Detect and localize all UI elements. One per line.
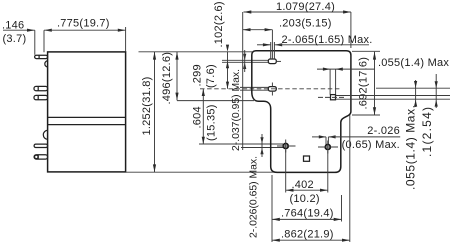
svg-text:(0.65) Max.: (0.65) Max. [342,139,400,151]
dimension 2-.026(0.65) Max. right [312,125,400,151]
PCB pattern outline [252,51,351,173]
dimension .299(7.6) [192,45,230,89]
svg-text:.1(2.54): .1(2.54) [420,107,434,157]
svg-text:.203(5.15): .203(5.15) [279,18,332,30]
case peg upper [45,61,48,67]
square hole S2 [304,156,310,161]
top reference line [139,51,253,53]
dimension .775(19.7) [44,17,126,51]
dimension .055(1.4) Max. right [404,74,438,190]
baseline [126,171,277,173]
svg-text:(15.35): (15.35) [206,104,218,141]
pin 2 [34,86,48,90]
hole H2 row line [200,88,340,90]
relay body side view [48,52,126,172]
svg-text:.496(12.6): .496(12.6) [161,52,173,105]
svg-text:(7.6): (7.6) [205,64,217,88]
svg-text:2-.037(0.95) Max.: 2-.037(0.95) Max. [231,69,242,151]
square hole S1 [318,95,345,100]
right row lines [376,87,450,89]
svg-text:.862(21.9): .862(21.9) [281,228,334,240]
label 2-.026(0.65) Max. lower [199,134,283,238]
label 2-.037(0.95) Max. upper [231,50,246,151]
dimension .604(15.35) [192,89,218,144]
svg-text:.055(1.4) Max.: .055(1.4) Max. [378,57,450,69]
pin 3 [34,95,48,99]
dimension .692(17.6) [352,51,380,115]
dimension .146(3.7) [2,20,52,55]
pin 1 top [35,55,48,58]
svg-text:.775(19.7): .775(19.7) [57,17,110,29]
dimension .1(2.54) [414,80,434,157]
hole H4 bottom-right [318,141,338,154]
svg-text:.604: .604 [192,106,204,128]
svg-text:2-.026(0.65) Max.: 2-.026(0.65) Max. [249,156,260,238]
dimension .203(5.15) [243,18,332,32]
svg-text:1.252(31.8): 1.252(31.8) [141,76,153,135]
relay edge projection line [242,12,244,150]
dimension .055(1.4) Max. top [317,57,450,95]
dimension .862(21.9) [272,115,350,242]
svg-text:.102(2.6): .102(2.6) [213,1,225,47]
dimension .496(12.6) [161,52,254,105]
svg-text:2-.065(1.65) Max.: 2-.065(1.65) Max. [282,34,373,46]
hole H1 slot lines [222,59,268,61]
dimension .764(19.4) [272,175,342,242]
svg-text:.764(19.4): .764(19.4) [281,207,334,219]
hole H2 [268,83,276,96]
svg-text:.055(1.4) Max.: .055(1.4) Max. [404,105,418,190]
hole H3 bottom-left [277,140,296,153]
dimension 1.079(27.4) [244,1,351,48]
dimension 1.252(31.8) [141,52,156,172]
svg-text:2-.026: 2-.026 [367,125,400,137]
svg-text:.692(17.6): .692(17.6) [358,57,370,110]
dimension .402(10.2) [286,150,328,205]
svg-text:(10.2): (10.2) [290,193,320,205]
hole H1 [268,30,281,64]
svg-text:.146: .146 [2,20,24,32]
svg-text:.299: .299 [192,64,204,86]
dimension 2-.065(1.65) Max. [257,34,373,46]
pin 5 [34,155,48,159]
pin 4 [34,144,48,147]
svg-text:.402: .402 [292,179,314,191]
case peg lower [43,130,48,139]
svg-text:(3.7): (3.7) [3,33,27,45]
svg-text:1.079(27.4): 1.079(27.4) [276,1,335,13]
